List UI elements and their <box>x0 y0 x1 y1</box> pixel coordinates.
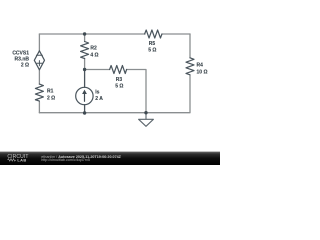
wire node B to R3 <box>85 69 110 71</box>
resistor R1 zigzag <box>35 84 43 101</box>
svg-text:2 A: 2 A <box>95 96 103 102</box>
svg-text:CCVS1: CCVS1 <box>12 50 29 56</box>
resistor R2 zigzag <box>81 42 89 59</box>
CCVS1 minus mark <box>36 54 42 56</box>
wire R2 to node B <box>84 59 86 70</box>
current source Is arrow <box>84 93 86 102</box>
wire left column R1 to bottom corner <box>38 102 40 113</box>
resistor R5 zigzag <box>145 30 162 38</box>
footer bar <box>0 152 220 165</box>
svg-text:R1: R1 <box>47 89 54 95</box>
svg-text:2 Ω: 2 Ω <box>47 95 55 101</box>
node B junction dot <box>83 68 86 71</box>
svg-text:2 Ω: 2 Ω <box>21 62 29 68</box>
svg-text:4 Ω: 4 Ω <box>90 52 98 58</box>
CircuitLab logo zigzag <box>8 159 16 161</box>
svg-text:LAB: LAB <box>17 157 26 162</box>
wire left column CCVS1 to R1 <box>38 70 40 84</box>
ground <box>139 113 154 127</box>
wire R3 to right corner down to ground node <box>127 70 147 113</box>
wire bottom from left corner to ground node <box>39 112 146 114</box>
wire mid column node A to R2 <box>84 34 86 42</box>
resistor R4 zigzag <box>186 58 194 75</box>
svg-text:R4: R4 <box>197 63 204 69</box>
wire Is bottom lead <box>84 105 86 113</box>
wire right column below R4 <box>146 75 190 112</box>
svg-text:R2: R2 <box>90 46 97 52</box>
svg-text:R5: R5 <box>149 41 156 47</box>
resistor R3 zigzag <box>110 66 127 74</box>
svg-text:R3: R3 <box>116 77 123 83</box>
wire Is top lead <box>84 70 86 88</box>
wire right column above R4 <box>189 34 191 58</box>
svg-text:5 Ω: 5 Ω <box>115 83 123 89</box>
wire top from R5 to top-right corner <box>162 33 190 35</box>
svg-text:http://circuitlab.com/c/kq47rv: http://circuitlab.com/c/kq47rv5 <box>41 158 90 162</box>
node A junction dot <box>83 32 86 35</box>
svg-text:10 Ω: 10 Ω <box>197 69 208 75</box>
wire left column top (corner to CCVS1) <box>38 34 40 51</box>
CCVS1 plus mark <box>37 61 42 66</box>
junction dot ground node <box>144 111 147 114</box>
wire top from node A to R5 <box>39 33 145 35</box>
svg-text:Is: Is <box>95 90 99 96</box>
svg-text:5 Ω: 5 Ω <box>148 48 156 54</box>
junction dot Is bottom <box>83 111 86 114</box>
current source Is circle <box>76 87 93 104</box>
CCVS1 dependent source diamond <box>34 51 44 70</box>
